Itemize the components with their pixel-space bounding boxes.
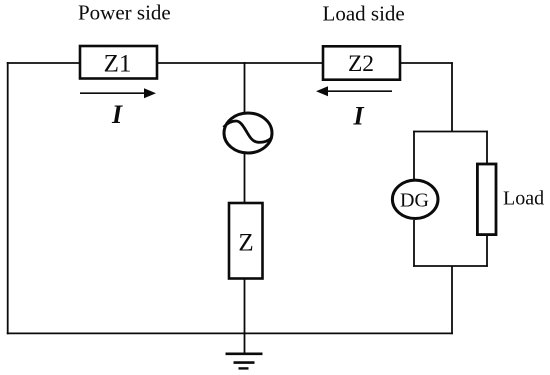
wire: top-middle horizontal (Z1 to Z2 through source node) bbox=[157, 62, 323, 64]
load resistor bbox=[477, 164, 496, 235]
ac source V bbox=[224, 113, 273, 153]
current arrow I (power side) bbox=[80, 88, 156, 98]
ground bbox=[226, 354, 263, 369]
wire: merge node down to bottom rail bbox=[451, 266, 453, 334]
wire: left rail vertical bbox=[7, 62, 9, 334]
svg-text:Z2: Z2 bbox=[348, 51, 374, 77]
svg-text:I: I bbox=[352, 102, 364, 131]
wire: DG branch upper vertical bbox=[413, 131, 415, 180]
svg-text:DG: DG bbox=[400, 190, 429, 212]
impedance Z2 bbox=[323, 46, 400, 79]
wire: impedance Z to ground bbox=[244, 279, 246, 354]
wire: bottom rail horizontal bbox=[7, 332, 453, 334]
wire: DG branch lower vertical bbox=[413, 220, 415, 267]
wire: right rail vertical (top corner down to branch split) bbox=[451, 62, 453, 131]
svg-text:I: I bbox=[111, 100, 123, 129]
wire: top-right horizontal (Z2 to right corner) bbox=[400, 62, 453, 64]
svg-text:Load: Load bbox=[503, 188, 544, 210]
impedance Z1 bbox=[80, 46, 157, 79]
svg-text:Load side: Load side bbox=[323, 2, 405, 26]
current arrow I (load side) bbox=[316, 86, 392, 96]
wire: top-left horizontal (left rail to Z1) bbox=[7, 62, 80, 64]
wire: load branch upper vertical bbox=[486, 131, 488, 163]
wire: source node to ac source bbox=[244, 62, 246, 114]
svg-text:Power side: Power side bbox=[78, 1, 171, 25]
svg-text:Z: Z bbox=[238, 230, 253, 257]
svg-text:Z1: Z1 bbox=[104, 51, 132, 78]
wire: branch splitter horizontal bbox=[413, 131, 488, 133]
impedance Z bbox=[229, 203, 263, 279]
wire: ac source to impedance Z bbox=[244, 154, 246, 203]
wire: branch merge horizontal bbox=[413, 265, 488, 267]
generator DG bbox=[392, 180, 438, 218]
wire: load branch lower vertical bbox=[486, 236, 488, 267]
